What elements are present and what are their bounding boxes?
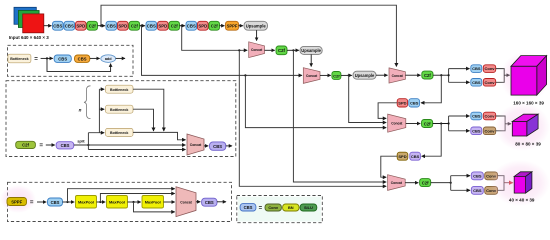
svg-text:SPPF: SPPF xyxy=(227,24,238,29)
wire C2f a branch down to Concat e xyxy=(293,50,386,182)
CBS def label box xyxy=(240,204,256,211)
input image red layer xyxy=(23,14,44,33)
Concat c xyxy=(389,68,405,83)
wire split direct low xyxy=(88,149,185,151)
wire Concat d to C2f d xyxy=(406,123,420,125)
junction P2 xyxy=(100,25,102,27)
head3 fork vertical xyxy=(450,176,452,191)
input image green layer xyxy=(18,11,39,28)
wire split to B3 xyxy=(88,132,104,134)
Concat a xyxy=(249,42,265,58)
wire MaxPool3 to sppf concat xyxy=(164,201,175,203)
svg-text:CBS: CBS xyxy=(65,24,74,29)
wire sppf concat to CBS xyxy=(196,201,200,203)
head2 Conv row1 xyxy=(483,112,495,120)
sppf def CBS blue xyxy=(48,198,63,206)
wire CBS orange to add xyxy=(90,57,100,59)
SPD pair2 CBS violet xyxy=(410,152,421,160)
svg-text:Bottleneck: Bottleneck xyxy=(110,88,128,92)
svg-text:MaxPool: MaxPool xyxy=(78,200,94,205)
junction bottleneck residual xyxy=(46,57,48,59)
wire C2f2 to CBS4 with P3 junction xyxy=(140,25,145,27)
junction head1 fork xyxy=(448,74,450,76)
CBS def BN box xyxy=(283,204,299,211)
CBS def SiLU box xyxy=(300,204,317,211)
wire CBS to MaxPool1 xyxy=(63,201,75,203)
wire bottleneck residual xyxy=(47,58,111,71)
svg-text:Concat: Concat xyxy=(180,200,192,204)
head1 Conv row2 xyxy=(483,79,495,87)
svg-text:C2f: C2f xyxy=(424,73,431,78)
cube1 right face xyxy=(537,56,547,96)
svg-text:40 × 40 × 39: 40 × 40 × 39 xyxy=(509,197,535,202)
svg-text:CBS: CBS xyxy=(51,200,60,205)
svg-text:Input 640 × 640 × 3: Input 640 × 640 × 3 xyxy=(9,35,50,40)
cube1 top face xyxy=(511,56,547,67)
CBS def Conv box xyxy=(265,204,281,211)
wire CBS to split xyxy=(74,144,88,146)
wire Upsample1 down to Concat a xyxy=(256,30,258,40)
Concat b xyxy=(303,68,320,84)
wire bottleneck output xyxy=(116,57,125,59)
split vertical xyxy=(87,133,89,150)
backbone C2f 4 xyxy=(209,21,220,30)
wire c2f input xyxy=(46,144,55,146)
C2f label box xyxy=(16,141,36,148)
svg-text:Upsample: Upsample xyxy=(301,48,321,53)
wire P3 skip down and right to Concat b xyxy=(142,26,303,76)
svg-text:CBS: CBS xyxy=(472,80,481,85)
svg-text:C2f: C2f xyxy=(424,121,431,126)
backbone CBS 5 xyxy=(186,21,197,30)
C2f def Concat xyxy=(187,134,204,155)
junction head3 fork xyxy=(450,182,452,184)
C2f c xyxy=(422,71,433,79)
svg-text:Conv: Conv xyxy=(485,80,496,85)
wire head2 merge to cube2 xyxy=(505,123,511,125)
MaxPool 2 xyxy=(107,196,128,209)
wire SPPF to Upsample1 xyxy=(239,25,243,27)
svg-text:MaxPool: MaxPool xyxy=(145,200,161,205)
backbone CBS 1 xyxy=(53,21,64,30)
svg-text:C2f: C2f xyxy=(131,24,138,29)
svg-text:C2f: C2f xyxy=(22,143,29,148)
svg-text:CBS: CBS xyxy=(411,154,420,159)
svg-text:Upsample: Upsample xyxy=(246,23,267,28)
svg-text:=: = xyxy=(39,142,43,149)
svg-text:C2f: C2f xyxy=(278,48,285,53)
svg-text:CBS: CBS xyxy=(58,56,67,61)
wire split direct mid xyxy=(88,144,185,146)
svg-text:Upsample: Upsample xyxy=(355,73,375,78)
wire B2 out drop xyxy=(133,109,154,131)
svg-text:C2f: C2f xyxy=(333,73,340,78)
Bottleneck box B3 xyxy=(106,128,134,136)
Upsample 2 xyxy=(300,46,322,54)
backbone CBS 4 xyxy=(146,21,157,30)
Concat e xyxy=(388,175,406,191)
head1 Conv row1 xyxy=(483,65,495,73)
wire MaxPool2 to MaxPool3 xyxy=(128,201,141,203)
wire C2f b to Upsample3 xyxy=(341,74,352,76)
wire head1 merge to cube1 xyxy=(504,74,510,76)
svg-text:Conv: Conv xyxy=(268,205,279,210)
backbone C2f 2 xyxy=(129,21,140,30)
C2f definition dashed box xyxy=(6,81,236,157)
wire sppf input xyxy=(37,201,46,203)
svg-text:CBS: CBS xyxy=(107,24,116,29)
backbone SPD 4 xyxy=(198,21,209,30)
wire SPD pair1 to Concat d xyxy=(378,103,397,119)
head1 merge wires xyxy=(496,69,505,83)
backbone C2f 1 xyxy=(87,21,98,30)
wire sppf skipC under xyxy=(134,202,175,212)
wire C2f e to head3 fork xyxy=(431,182,451,184)
head3 Conv row1 tan xyxy=(485,172,498,180)
SPPF halo xyxy=(0,185,36,213)
cube2 halo xyxy=(495,103,550,151)
wire C2f b branch down to Concat d xyxy=(349,75,387,122)
SPPF def Concat xyxy=(176,187,196,217)
wire head2 fork to CBS row1 xyxy=(449,115,470,117)
svg-text:SPD: SPD xyxy=(118,24,127,29)
svg-text:CBS: CBS xyxy=(244,205,253,210)
svg-text:80 × 80 × 39: 80 × 80 × 39 xyxy=(515,142,541,147)
svg-text:C2f: C2f xyxy=(171,24,178,29)
wire bottleneck input xyxy=(41,57,53,59)
SPD pair2 SPD tan xyxy=(397,152,408,160)
svg-text:CBS: CBS xyxy=(78,56,87,61)
bottleneck CBS orange xyxy=(75,55,90,62)
svg-text:Concat: Concat xyxy=(251,48,263,52)
head3 Conv row2 tan xyxy=(485,186,498,194)
head2 fork vertical xyxy=(448,116,450,131)
wire C2f4 to SPPF xyxy=(220,25,225,27)
junction sppf skipC xyxy=(132,201,134,203)
wire riser to B2 xyxy=(99,108,104,110)
svg-text:Bottleneck: Bottleneck xyxy=(10,57,28,61)
wire Upsample2 down to Concat b xyxy=(310,54,312,66)
Upsample 1 xyxy=(244,21,268,30)
input image blue layer xyxy=(14,7,36,24)
MaxPool 3 xyxy=(142,196,164,209)
junction head1 down branch xyxy=(440,74,442,76)
head2 CBS row2 violet xyxy=(471,127,482,135)
svg-text:CBS: CBS xyxy=(213,144,222,149)
C2f d xyxy=(422,120,433,128)
head2 merge wires xyxy=(496,116,505,131)
wire riser to B1 xyxy=(99,88,104,90)
junction P4 branch xyxy=(238,49,240,51)
svg-text:Conv: Conv xyxy=(485,66,496,71)
junction sppf skipB xyxy=(99,201,101,203)
cube2 front face xyxy=(512,122,527,137)
head2 CBS row1 xyxy=(471,112,482,120)
junction P3 branch xyxy=(244,74,246,76)
svg-text:CBS: CBS xyxy=(187,24,196,29)
junction head2 down branch xyxy=(440,122,442,124)
wire P2 long skip top xyxy=(101,5,396,66)
svg-text:=: = xyxy=(30,199,34,206)
wire sppf def output xyxy=(217,201,226,203)
c2f def CBS violet xyxy=(56,142,74,149)
backbone CBS 2 xyxy=(64,21,75,30)
svg-text:SiLU: SiLU xyxy=(304,205,313,210)
wire B3 out to concat top xyxy=(133,132,186,139)
svg-text:Bottleneck: Bottleneck xyxy=(110,108,128,112)
cube3 halo xyxy=(490,160,550,206)
svg-text:=: = xyxy=(259,206,263,212)
svg-text:SPD: SPD xyxy=(398,101,406,106)
cube3 front face xyxy=(514,176,525,193)
svg-text:Concat: Concat xyxy=(190,143,202,147)
svg-text:=: = xyxy=(34,56,38,63)
wire head3 fork to CBS row1 xyxy=(451,175,470,177)
wire P4 branch down to Concat e xyxy=(239,50,386,186)
svg-text:Concat: Concat xyxy=(391,181,403,185)
svg-text:BN: BN xyxy=(288,205,294,210)
Upsample 3 xyxy=(353,71,376,79)
wire input to CBS1 xyxy=(44,25,52,27)
wire head1 branch down to CBS of SPD pair 1 xyxy=(421,75,441,103)
wire head3 merge to cube3 red arrow xyxy=(504,182,513,184)
CBS def interior tint xyxy=(238,197,321,222)
C2f def out CBS violet xyxy=(210,142,226,150)
backbone SPPF xyxy=(226,21,239,30)
wire P3 branch down to Concat d xyxy=(245,75,386,127)
wire MaxPool1 to MaxPool2 xyxy=(97,201,106,203)
Bottleneck label box xyxy=(8,54,31,63)
svg-text:MaxPool: MaxPool xyxy=(109,200,125,205)
svg-text:CBS: CBS xyxy=(205,200,214,205)
wire Concat c to C2f c xyxy=(405,74,420,76)
svg-text:SPD: SPD xyxy=(158,24,167,29)
C2f a xyxy=(276,46,287,55)
wire sppf skipA over xyxy=(68,189,175,202)
wire c2f def output xyxy=(226,145,232,147)
head3 merge wires xyxy=(498,176,504,191)
wire head1 fork to CBS row2 xyxy=(449,81,470,83)
Bottleneck box B1 xyxy=(106,85,134,93)
wire head2 fork to CBS row2 xyxy=(449,130,470,132)
head1 CBS row2 xyxy=(471,79,482,87)
svg-text:Conv: Conv xyxy=(485,128,496,133)
svg-text:CBS: CBS xyxy=(61,143,70,148)
wire sppf skipB over xyxy=(100,194,174,203)
SPD pair1 SPD xyxy=(397,99,407,107)
svg-text:C2f: C2f xyxy=(89,24,96,29)
svg-text:split: split xyxy=(77,140,85,144)
SPPF definition dashed box xyxy=(8,182,232,221)
backbone C2f 3 xyxy=(169,21,180,30)
svg-text:CBS: CBS xyxy=(53,24,62,29)
svg-text:SPPF: SPPF xyxy=(11,199,22,204)
wire Concat e to C2f e xyxy=(405,182,418,184)
junction C2f b branch xyxy=(348,74,350,76)
Bottleneck box B2 xyxy=(106,105,134,113)
svg-text:CBS: CBS xyxy=(472,114,481,119)
wire head3 fork to CBS row2 xyxy=(451,189,470,191)
cube3 top face xyxy=(514,172,532,177)
head3 CBS row1 violet xyxy=(471,172,483,180)
backbone CBS 3 xyxy=(106,21,117,30)
svg-text:Concat: Concat xyxy=(392,74,404,78)
svg-text:CBS: CBS xyxy=(473,188,482,193)
svg-text:CBS: CBS xyxy=(473,174,482,179)
svg-text:Conv: Conv xyxy=(485,114,496,119)
backbone SPD 3 xyxy=(158,21,169,30)
cube2 right face xyxy=(527,114,538,136)
Bottleneck definition dashed box xyxy=(8,45,134,76)
sppf def out CBS violet xyxy=(202,198,217,206)
head1 fork vertical xyxy=(448,69,450,83)
svg-text:CBS: CBS xyxy=(410,101,419,106)
junction P3 xyxy=(140,25,142,27)
junction split xyxy=(87,144,89,146)
wire P4 skip down and right to Concat a xyxy=(182,26,248,51)
CBS definition dashed box xyxy=(237,196,322,223)
cube1 halo xyxy=(500,52,550,102)
wire concat to CBS xyxy=(204,145,208,147)
wire Concat a to C2f a xyxy=(265,49,275,51)
head2 Conv row2 tan xyxy=(483,127,495,135)
svg-text:SPD: SPD xyxy=(76,24,85,29)
junction sppf skipA xyxy=(66,201,68,203)
svg-text:Bottleneck: Bottleneck xyxy=(110,131,128,135)
svg-text:SPD: SPD xyxy=(198,24,207,29)
wire SPD pair2 to Concat e xyxy=(381,156,397,177)
svg-text:SPD: SPD xyxy=(398,154,406,159)
wire C2f1 to CBS3 with P2 junction xyxy=(98,25,105,27)
wire B1 out drop xyxy=(133,89,164,131)
junction P4 xyxy=(181,25,183,27)
junction head2 fork xyxy=(448,122,450,124)
wire C2f c to head1 fork xyxy=(433,74,449,76)
svg-text:Concat: Concat xyxy=(391,122,403,126)
SPPF label box xyxy=(7,198,27,206)
wire C2f3 to CBS5 with P4 junction xyxy=(180,25,185,27)
head3 CBS row2 violet xyxy=(471,186,483,194)
wire C2f a to Upsample2 xyxy=(287,49,299,51)
head1 CBS row1 xyxy=(471,65,482,73)
svg-text:C2f: C2f xyxy=(422,181,429,186)
Concat d xyxy=(388,114,406,132)
cube1 front face xyxy=(511,66,537,95)
svg-text:Concat: Concat xyxy=(306,74,318,78)
wire head1 fork to CBS row1 xyxy=(449,68,470,70)
backbone SPD 1 xyxy=(76,21,87,30)
C2f e xyxy=(420,179,431,187)
wire Concat b to C2f b xyxy=(320,74,331,76)
cube2 top face xyxy=(512,114,538,121)
C2f b xyxy=(332,72,341,80)
svg-text:n: n xyxy=(79,108,82,113)
bottleneck add ellipse xyxy=(101,55,116,63)
junction C2f a branch xyxy=(292,49,294,51)
svg-text:CBS: CBS xyxy=(472,66,481,71)
backbone SPD 2 xyxy=(118,21,129,30)
svg-text:add: add xyxy=(105,57,112,61)
svg-text:CBS: CBS xyxy=(472,128,481,133)
svg-text:CBS: CBS xyxy=(147,24,156,29)
MaxPool 1 xyxy=(76,196,97,209)
wire head2 branch down to CBS of SPD pair 2 xyxy=(422,124,442,157)
wire C2f d to head2 fork xyxy=(433,123,449,125)
riser for B1 B2 xyxy=(98,89,100,133)
wire Upsample3 to Concat c xyxy=(376,74,388,76)
SPD pair1 CBS xyxy=(409,99,420,107)
bottleneck CBS blue xyxy=(54,55,71,62)
curly brace xyxy=(84,86,91,119)
cube3 right face xyxy=(526,172,532,193)
svg-text:C2f: C2f xyxy=(211,24,218,29)
